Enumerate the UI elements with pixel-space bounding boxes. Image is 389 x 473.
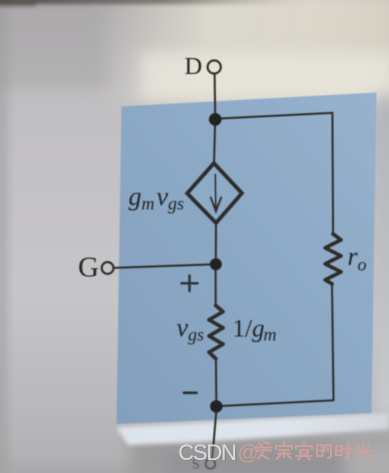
- svg-text:v: v: [177, 313, 189, 342]
- wire gate node to resistor 1/gm: [215, 264, 217, 306]
- label minus polarity of vgs: [184, 391, 197, 394]
- node: source junction dot: [210, 400, 222, 412]
- wire source node to right branch bottom: [216, 400, 333, 406]
- svg-text:G: G: [78, 252, 99, 284]
- terminal G open circle: [102, 262, 114, 274]
- svg-text:m: m: [264, 325, 277, 345]
- svg-text:gs: gs: [168, 194, 184, 214]
- svg-text:g: g: [129, 182, 142, 211]
- svg-text:CSDN: CSDN: [178, 440, 236, 465]
- svg-text:o: o: [358, 255, 367, 275]
- wire source node to S terminal: [213, 412, 216, 448]
- terminal D open circle: [208, 60, 221, 73]
- svg-text:m: m: [142, 194, 155, 214]
- watermark Chinese characters (drawn glyph mimics): [256, 442, 372, 460]
- wire resistor 1/gm to source node: [215, 359, 217, 401]
- label plus polarity of vgs: [182, 276, 198, 292]
- current source arrow shaft: [214, 175, 217, 209]
- dependent current source gm*vgs (diamond): [187, 163, 242, 222]
- node: gate junction dot: [210, 258, 222, 270]
- wire right branch down to resistor ro: [331, 113, 334, 235]
- wire D terminal to drain node: [214, 74, 217, 114]
- svg-text:@: @: [238, 442, 259, 465]
- dark photo edge top: [0, 0, 341, 6]
- light page-edge strip below shaded box: [116, 413, 389, 445]
- svg-text:D: D: [185, 53, 203, 80]
- svg-text:1/g: 1/g: [233, 316, 265, 343]
- blue shaded region of small-signal model: [117, 93, 377, 425]
- left photo vignette: [0, 0, 8, 473]
- svg-text:gs: gs: [188, 325, 204, 345]
- wire resistor ro to bottom right corner: [332, 284, 334, 401]
- resistor ro zigzag: [325, 234, 341, 284]
- wire drain node to diamond top: [214, 119, 215, 164]
- wire diamond bottom to gate node: [215, 223, 217, 258]
- terminal S open circle: [206, 459, 216, 469]
- svg-text:v: v: [157, 182, 169, 211]
- wire drain node to right branch: [215, 113, 332, 119]
- resistor 1/gm zigzag: [209, 306, 223, 359]
- wire G terminal to gate node: [114, 264, 216, 268]
- current source arrowhead: [211, 198, 221, 212]
- watermark CSDN: [178, 440, 237, 466]
- node: drain junction dot: [209, 113, 222, 126]
